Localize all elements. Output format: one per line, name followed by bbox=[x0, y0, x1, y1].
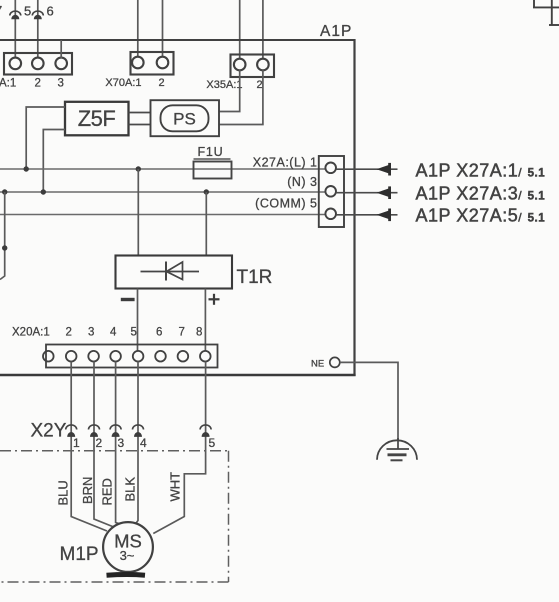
wire X70A:2 top lead bbox=[162, 0, 164, 57]
arrowhead X27A:1 bbox=[377, 165, 390, 174]
wire NE to earth bbox=[340, 362, 398, 440]
svg-text:3: 3 bbox=[118, 436, 125, 450]
junction dot N / Z5F bbox=[41, 189, 46, 194]
svg-text:A1P X27A:5/ 5.1: A1P X27A:5/ 5.1 bbox=[416, 206, 546, 226]
svg-text:WHT: WHT bbox=[168, 472, 183, 502]
junction dot L / T1R bbox=[136, 166, 141, 171]
svg-text:X2Y: X2Y bbox=[31, 421, 67, 442]
wire T1R minus to X20A:5 bbox=[137, 289, 139, 351]
svg-text:(N) 3: (N) 3 bbox=[287, 175, 317, 189]
A1P board right edge bbox=[353, 39, 355, 376]
label A:1 2 3 bbox=[0, 78, 64, 90]
junction dot N / T1R bbox=[204, 189, 209, 194]
svg-text:5: 5 bbox=[131, 327, 137, 339]
svg-text:A1P X27A:3/ 5.1: A1P X27A:3/ 5.1 bbox=[416, 184, 546, 204]
wire T1R plus to X20A:8 bbox=[204, 289, 206, 351]
connector X20A (8-pin) bbox=[43, 345, 218, 368]
connector X35A (2-pin) bbox=[231, 55, 275, 78]
wire top lead into connector block circle 2 bbox=[37, 0, 39, 58]
protective earth symbol bbox=[377, 438, 417, 460]
svg-text:A1P X27A:1/ 5.1: A1P X27A:1/ 5.1 bbox=[416, 160, 546, 180]
connector X70A (2-pin) bbox=[131, 52, 174, 75]
underline of F1U bbox=[194, 158, 231, 160]
wire stub from XA:3 to board edge bbox=[60, 40, 62, 58]
arrowhead X27A:5 bbox=[377, 211, 390, 220]
plug-socket connector X2Y:4 bbox=[133, 425, 144, 437]
A1P board bottom edge bbox=[0, 374, 356, 377]
svg-text:5: 5 bbox=[24, 4, 31, 19]
A1P board top edge bbox=[0, 39, 355, 41]
plug-socket connector X2Y:5 bbox=[200, 425, 211, 437]
net line L bbox=[0, 168, 325, 170]
wire X35A:1 to PS bbox=[219, 70, 240, 112]
fan motor M1P circle bbox=[103, 522, 153, 572]
label X20A:1..8 bbox=[12, 327, 202, 339]
svg-text:X35A:1: X35A:1 bbox=[206, 79, 242, 91]
plug-socket connector X2Y:2 bbox=[89, 425, 100, 437]
svg-text:Z5F: Z5F bbox=[78, 106, 116, 131]
wire X20A:2 to X2Y:1 (BLU) bbox=[71, 362, 107, 532]
wire X27A:1 out bbox=[336, 168, 398, 170]
partial component box at top right corner bbox=[533, 0, 559, 25]
fuse F1U bbox=[194, 162, 232, 179]
rectifier T1R bbox=[116, 256, 233, 289]
arrowhead X27A:3 bbox=[377, 188, 390, 197]
minus terminal label bbox=[121, 298, 135, 301]
svg-text:7: 7 bbox=[179, 327, 185, 339]
diode symbol inside T1R bbox=[141, 262, 200, 281]
svg-text:2: 2 bbox=[96, 436, 103, 450]
plug-socket connector 6 bbox=[32, 11, 43, 19]
connector X27A bbox=[319, 156, 344, 227]
enclosure boundary dash-dot right bbox=[228, 451, 230, 582]
svg-text:BLK: BLK bbox=[123, 477, 138, 502]
wire X20A:3 to X2Y:2 (BRN) bbox=[94, 362, 115, 528]
svg-text:4: 4 bbox=[140, 436, 147, 450]
plug-socket connector X2Y:3 bbox=[110, 425, 121, 437]
svg-text:5: 5 bbox=[209, 436, 216, 450]
label X35A:1 2 bbox=[206, 79, 262, 91]
noise filter Z5F bbox=[65, 102, 129, 136]
svg-text:(COMM) 5: (COMM) 5 bbox=[255, 197, 317, 211]
svg-text:A1P: A1P bbox=[320, 23, 352, 40]
plug-socket connector X2Y:1 bbox=[66, 425, 77, 437]
wire X35A:2 to PS bbox=[219, 70, 263, 125]
wire X35A:1 top lead bbox=[239, 0, 241, 59]
junction dot N at left bbox=[2, 189, 7, 194]
plus terminal label bbox=[209, 294, 220, 305]
wire Z5F upper lead to line L bbox=[26, 107, 65, 169]
net line N bbox=[0, 191, 325, 193]
svg-text:2: 2 bbox=[159, 77, 165, 89]
svg-text:6: 6 bbox=[156, 327, 162, 339]
wire top lead into connector block circle 1 bbox=[14, 0, 16, 58]
svg-text:PS: PS bbox=[173, 110, 196, 129]
label X70A:1 2 bbox=[105, 77, 164, 89]
wire X20A:8 to X2Y:5 (WHT) bbox=[153, 362, 205, 534]
wire X27A:3 out bbox=[336, 192, 398, 194]
wire X70A:1 top lead bbox=[137, 0, 139, 57]
svg-text:4: 4 bbox=[110, 327, 117, 339]
svg-text:BLU: BLU bbox=[56, 480, 71, 505]
plug-socket connector 5 bbox=[10, 11, 21, 19]
wire N to T1R bbox=[205, 192, 207, 256]
svg-text:X20A:1: X20A:1 bbox=[12, 327, 50, 339]
wire X27A:5 out bbox=[336, 214, 398, 216]
svg-text:BRN: BRN bbox=[80, 477, 95, 504]
wire X35A:2 top lead bbox=[262, 0, 264, 59]
wire X20A:4 to X2Y:3 (RED) bbox=[116, 362, 122, 525]
svg-text:1: 1 bbox=[73, 436, 80, 450]
svg-text:A:1: A:1 bbox=[0, 78, 16, 90]
wire stub from N down at left edge bbox=[0, 192, 5, 280]
wire Z5F lower lead to line N bbox=[43, 130, 65, 193]
junction dot on left stub bbox=[2, 245, 7, 250]
svg-text:3: 3 bbox=[88, 327, 94, 339]
svg-text:T1R: T1R bbox=[237, 267, 273, 288]
svg-text:8: 8 bbox=[196, 327, 202, 339]
switching power supply PS bbox=[151, 100, 220, 136]
svg-text:NE: NE bbox=[311, 359, 324, 370]
svg-text:M1P: M1P bbox=[60, 544, 99, 565]
link wires Z5F to PS bbox=[129, 112, 151, 114]
svg-text:6: 6 bbox=[47, 4, 54, 19]
wire L to T1R bbox=[137, 169, 139, 256]
svg-text:F1U: F1U bbox=[198, 145, 224, 159]
connector block XA (3-pin, cut at left edge) bbox=[4, 53, 72, 75]
net line COMM bbox=[0, 214, 325, 216]
svg-text:2: 2 bbox=[66, 327, 72, 339]
enclosure boundary dash-dot bottom bbox=[0, 581, 229, 583]
junction dot L / Z5F bbox=[24, 166, 29, 171]
wire X20A:5 to X2Y:4 (BLK) bbox=[135, 362, 138, 526]
svg-text:2: 2 bbox=[35, 78, 41, 90]
svg-text:3: 3 bbox=[58, 78, 64, 90]
enclosure boundary dash-dot top bbox=[0, 450, 229, 452]
svg-text:7: 7 bbox=[0, 3, 2, 18]
svg-text:X27A:(L) 1: X27A:(L) 1 bbox=[253, 156, 318, 170]
svg-text:X70A:1: X70A:1 bbox=[105, 77, 141, 89]
motor base thick arc bbox=[107, 572, 146, 578]
svg-text:3~: 3~ bbox=[120, 548, 135, 563]
svg-text:2: 2 bbox=[257, 79, 263, 91]
svg-text:RED: RED bbox=[100, 478, 115, 505]
